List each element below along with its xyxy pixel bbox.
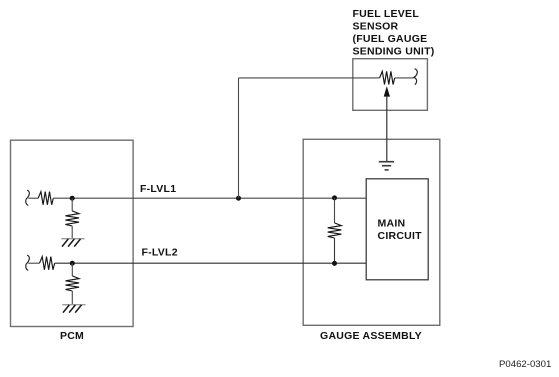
resistor R3 (PCM F-LVL2 series) bbox=[40, 257, 55, 270]
resistor R2 (PCM F-LVL1 pulldown) bbox=[65, 211, 79, 226]
squiggle circuit-continues symbol, PCM F-LVL2 bbox=[26, 255, 30, 270]
wire R6 top lead bbox=[334, 198, 336, 223]
resistor R6 (gauge assembly) bbox=[328, 223, 342, 238]
wire F-LVL1 left segment (squiggle to resistor) bbox=[28, 197, 38, 199]
wire F-LVL2 left segment (squiggle to resistor) bbox=[28, 262, 39, 264]
wire sensor resistor to squiggle bbox=[395, 77, 414, 79]
node junction dot gauge resistor top bbox=[332, 195, 337, 200]
node junction dot at sensor feed tap bbox=[236, 196, 241, 201]
wire R4 bottom lead bbox=[71, 291, 73, 305]
wiper arrow of sender bbox=[384, 86, 390, 161]
wire R2 bottom lead bbox=[71, 226, 73, 239]
earth ground below sensor bbox=[379, 162, 394, 170]
svg-text:(FUEL GAUGE: (FUEL GAUGE bbox=[353, 33, 428, 45]
svg-text:SENDING UNIT): SENDING UNIT) bbox=[353, 46, 435, 58]
wire horizontal into sensor box bbox=[239, 77, 380, 79]
svg-text:SENSOR: SENSOR bbox=[353, 21, 399, 33]
svg-text:CIRCUIT: CIRCUIT bbox=[378, 230, 423, 242]
svg-text:MAIN: MAIN bbox=[378, 217, 406, 229]
box FUEL LEVEL SENSOR bbox=[353, 59, 428, 111]
wire F-LVL2 (resistor to MAIN CIRCUIT) bbox=[55, 262, 367, 264]
box PCM bbox=[11, 140, 134, 326]
resistor R5 (sender variable resistor) bbox=[380, 71, 395, 84]
label FUEL LEVEL SENSOR bbox=[353, 8, 435, 58]
wire vertical riser to fuel level sensor bbox=[238, 78, 240, 198]
svg-text:GAUGE ASSEMBLY: GAUGE ASSEMBLY bbox=[320, 330, 422, 342]
svg-text:P0462-0301: P0462-0301 bbox=[499, 359, 551, 370]
wire R4 top lead bbox=[71, 263, 73, 276]
node junction dot PCM F-LVL1 bbox=[70, 196, 75, 201]
chassis ground G1 bbox=[61, 239, 84, 247]
squiggle circuit-continues symbol, sensor right bbox=[414, 69, 417, 85]
box GAUGE ASSEMBLY bbox=[303, 139, 440, 325]
squiggle circuit-continues symbol, PCM F-LVL1 bbox=[26, 190, 30, 205]
wire F-LVL1 (resistor to MAIN CIRCUIT) bbox=[53, 197, 366, 199]
box U1 MAIN CIRCUIT bbox=[366, 179, 428, 280]
svg-text:PCM: PCM bbox=[60, 330, 84, 342]
label MAIN CIRCUIT bbox=[378, 217, 423, 242]
svg-text:F-LVL2: F-LVL2 bbox=[142, 247, 178, 259]
svg-text:F-LVL1: F-LVL1 bbox=[140, 183, 176, 195]
chassis ground G2 bbox=[62, 305, 85, 313]
svg-text:FUEL LEVEL: FUEL LEVEL bbox=[353, 8, 420, 20]
resistor R4 (PCM F-LVL2 pulldown) bbox=[66, 276, 80, 291]
resistor R1 (PCM F-LVL1 series) bbox=[38, 192, 53, 205]
node junction dot gauge resistor bottom bbox=[332, 261, 337, 266]
node junction dot PCM F-LVL2 bbox=[70, 261, 75, 266]
wire R6 bottom lead bbox=[334, 238, 336, 263]
wire R2 top lead bbox=[71, 198, 73, 211]
